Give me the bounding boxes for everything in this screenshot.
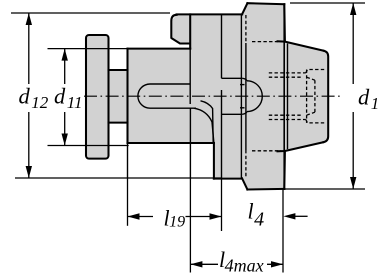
- medium internal lines: [128, 4, 288, 272]
- thread bore top outer: [269, 72, 306, 74]
- taper top edge: [278, 41, 324, 50]
- pilot point face: [314, 80, 316, 112]
- d11 dimension line: [64, 49, 66, 146]
- flange front face line: [240, 14, 242, 178]
- l4max arrow right: [271, 261, 283, 267]
- l4max extension left: [189, 178, 191, 273]
- slot bottom edge: [150, 107, 196, 109]
- pilot point top slant: [307, 77, 315, 80]
- body cylinder fill: [128, 49, 214, 143]
- rear bore top: [306, 70, 326, 73]
- bottom pocket divider: [189, 108, 191, 178]
- flange top edge: [247, 2, 284, 5]
- rear face with corners: [323, 51, 328, 143]
- rear steep slant bottom: [283, 152, 286, 189]
- l4 arrow left-pointing: [283, 213, 295, 219]
- flange rear face line: [283, 4, 285, 189]
- collar step face lower: [221, 90, 223, 179]
- d1 extension bottom: [285, 188, 365, 190]
- l19 dimension line: [128, 216, 222, 218]
- drive key nose outline: [171, 15, 189, 44]
- l19 arrow right: [210, 213, 222, 219]
- flange hidden bottom line: [252, 150, 281, 152]
- groove bottom edge: [109, 122, 128, 124]
- collar lower-right fill: [214, 140, 243, 179]
- slot right bottom stub: [240, 107, 245, 109]
- slot bottom sweep: [194, 108, 214, 143]
- slot right big arc: [247, 81, 262, 112]
- pilot point bottom slant: [307, 112, 315, 115]
- flange top chamfer: [242, 3, 247, 14]
- body bottom edge: [128, 142, 214, 144]
- body top edge: [128, 48, 191, 50]
- d12 arrow down: [26, 166, 32, 178]
- centerline: [84, 95, 341, 97]
- collar band fill: [189, 14, 242, 143]
- d11 arrow down: [62, 134, 68, 146]
- rear bore bottom: [306, 120, 326, 123]
- large flange fill: [242, 3, 284, 189]
- front bore dashed lower: [245, 150, 247, 178]
- d1 dimension line: [352, 3, 354, 189]
- l4 tail line: [294, 215, 308, 217]
- thread bore bottom outer: [269, 119, 306, 121]
- body edge lower extension: [127, 143, 129, 178]
- d12 arrow up: [26, 13, 32, 25]
- d1 arrow up: [350, 3, 356, 15]
- flange disk outline: [86, 35, 109, 159]
- d1 arrow down: [350, 177, 356, 189]
- drive key nose fill: [171, 15, 189, 44]
- thick outlines: [86, 3, 328, 189]
- slot right corner bottom: [242, 112, 247, 115]
- rear steep slant top: [283, 4, 286, 41]
- flange bottom edge: [247, 188, 284, 191]
- l19 arrow left: [128, 213, 140, 219]
- l4max arrow left: [190, 261, 202, 267]
- collar bottom edge: [214, 178, 242, 180]
- front bore dashed upper: [245, 15, 247, 43]
- slot right top stub: [240, 84, 245, 86]
- slot right corner top: [242, 78, 247, 81]
- front counterbore line: [245, 43, 247, 150]
- ledge bottom: [222, 113, 243, 115]
- thread bore bottom inner: [269, 114, 302, 116]
- d11 arrow up: [62, 49, 68, 61]
- flange disk (pilot flange) fill: [86, 35, 109, 159]
- d11 extension bottom: [48, 145, 129, 147]
- slot inner sweep: [201, 101, 214, 143]
- flange hidden top line: [252, 41, 281, 43]
- taper bottom edge: [278, 142, 324, 151]
- groove top edge: [109, 69, 128, 71]
- ledge top: [222, 77, 243, 79]
- flange bottom chamfer: [242, 178, 247, 189]
- nose right edge: [189, 14, 191, 48]
- d12 extension bottom: [15, 177, 222, 179]
- slot left arc: [138, 84, 150, 108]
- d12 extension top: [11, 12, 170, 14]
- bore bottom face: [306, 70, 308, 123]
- l19 extension left: [127, 178, 129, 226]
- relief groove fill: [109, 70, 128, 123]
- collar top edge: [177, 13, 243, 15]
- taper/rear section fill: [284, 42, 328, 152]
- l4max dimension line: [190, 263, 283, 265]
- hidden (dashed) lines: [246, 15, 326, 178]
- collar face through slot: [189, 84, 191, 104]
- part gray fills: [86, 3, 328, 189]
- d12 dimension line: [28, 13, 30, 178]
- collar bottom-left face: [213, 143, 215, 179]
- nose edge lower segment: [189, 49, 191, 84]
- slot top edge: [150, 83, 190, 85]
- l19 extension right: [221, 179, 223, 231]
- d1 extension top: [290, 2, 365, 4]
- body left edge: [126, 49, 128, 143]
- collar step face upper: [221, 14, 223, 78]
- taper start line: [287, 44, 289, 150]
- l4 extension right: [282, 189, 284, 273]
- thread bore top inner: [269, 76, 302, 78]
- d11 extension top: [48, 48, 128, 50]
